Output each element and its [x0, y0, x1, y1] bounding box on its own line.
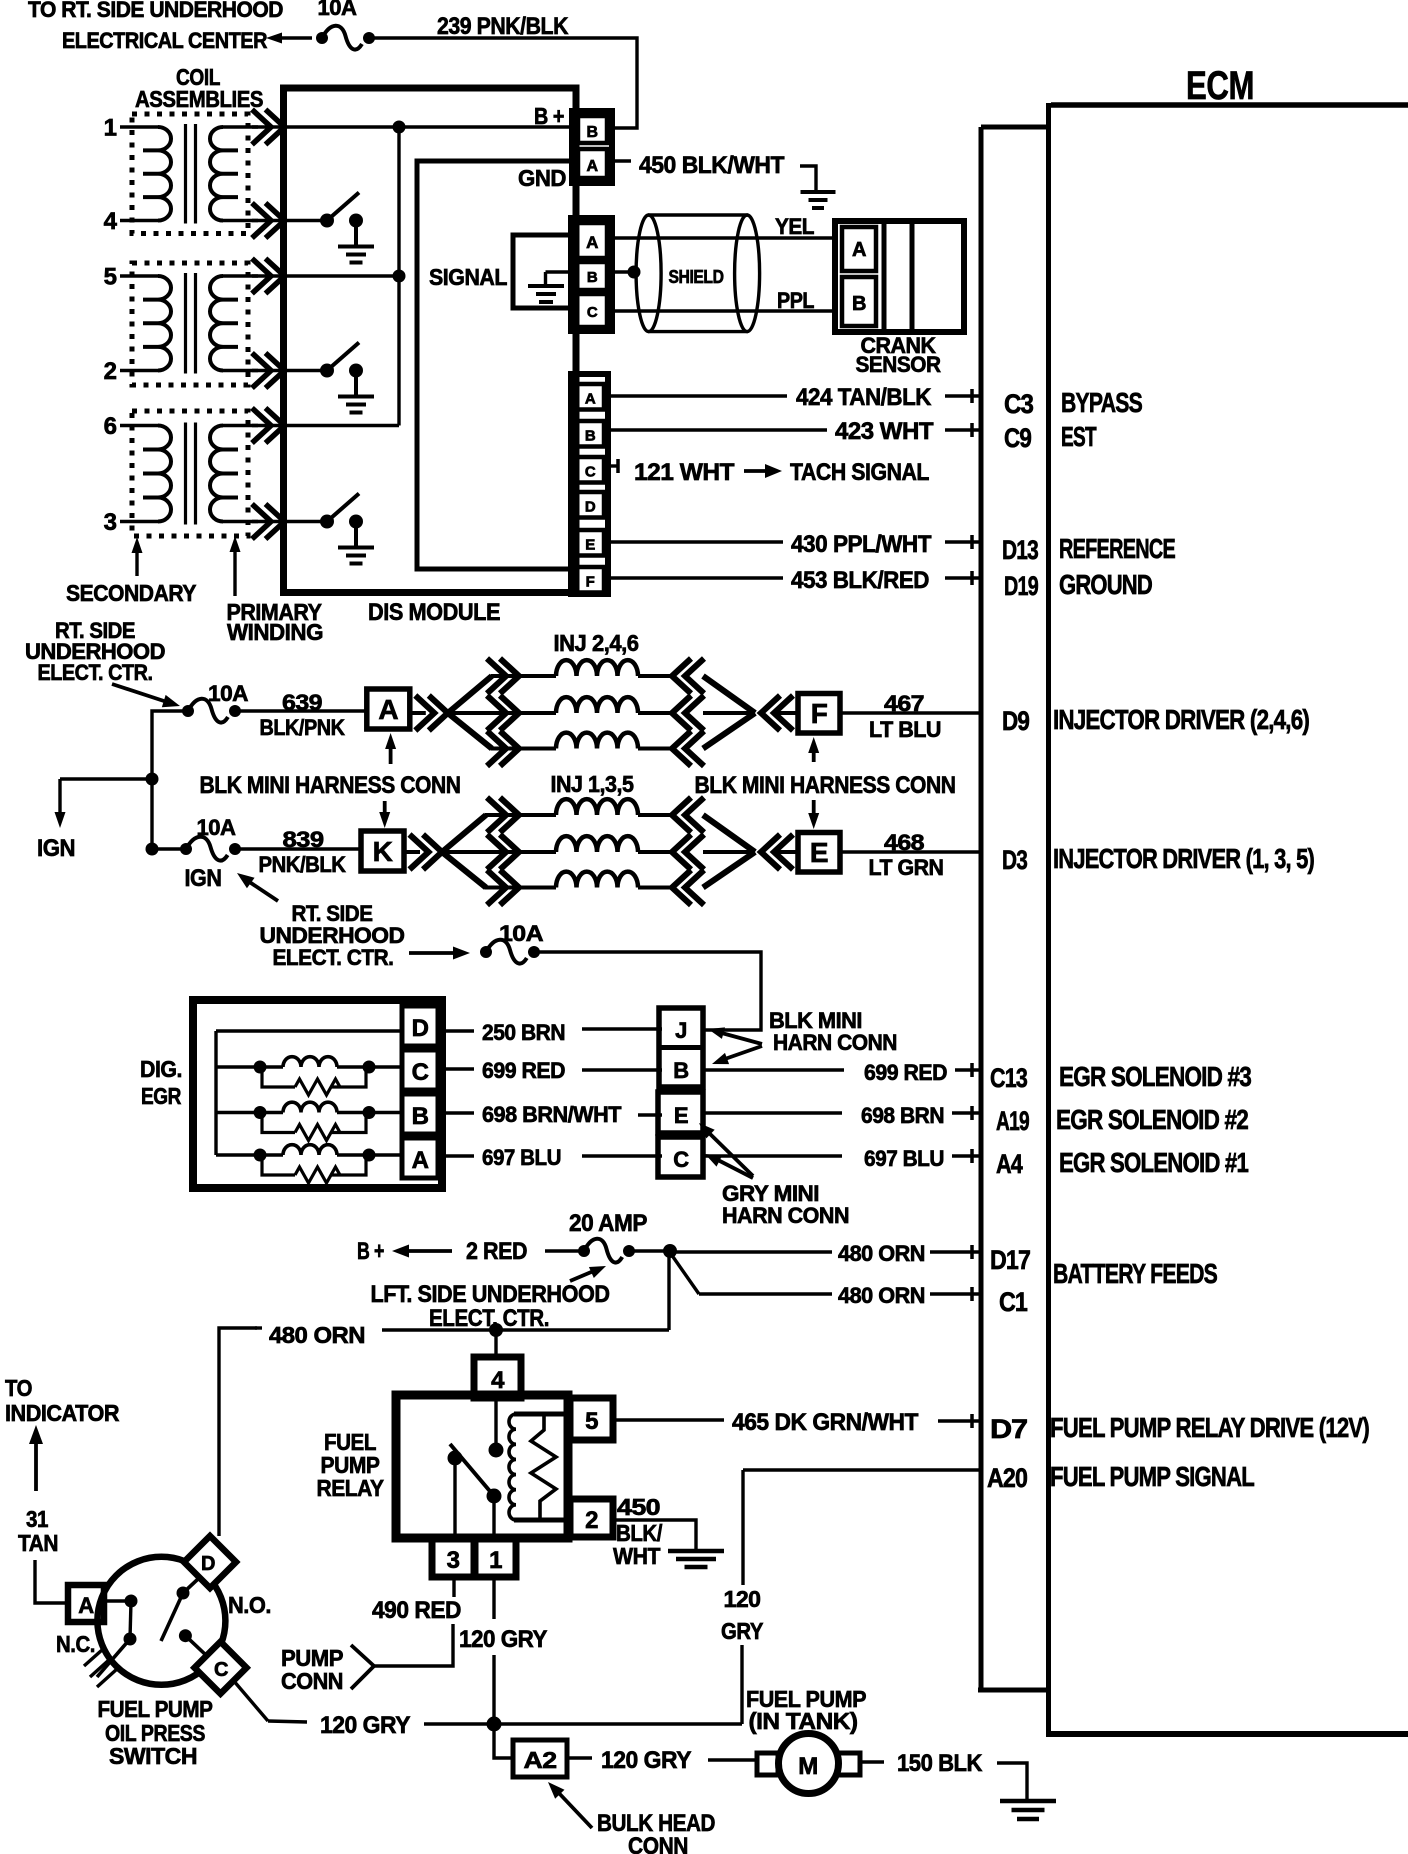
wire 697 BLU (left) [438, 1154, 662, 1157]
svg-text:TACH SIGNAL: TACH SIGNAL [790, 459, 929, 486]
branch chevrons [487, 835, 519, 870]
relay coil box [514, 1414, 566, 1520]
EGR pins D/C/B/A [402, 1006, 438, 1178]
relay coil (wavy) [509, 1414, 516, 1520]
primary winding of T3 [210, 426, 258, 522]
branch chevrons [487, 659, 519, 694]
label LFT. SIDE UNDERHOOD ELECT. CTR. with arrow [371, 1266, 610, 1332]
relay pin 3 box [432, 1538, 474, 1577]
wire 121 WHT tach stub [604, 459, 618, 473]
arrow to indicator [29, 1425, 43, 1491]
svg-text:M: M [798, 1753, 818, 1780]
svg-text:FUEL PUMP SIGNAL: FUEL PUMP SIGNAL [1050, 1461, 1255, 1492]
svg-text:C3: C3 [1004, 389, 1034, 419]
wire terminal ticks at ECM strip [970, 389, 974, 1428]
svg-text:D19: D19 [1004, 571, 1039, 601]
ground for 450 BLK/WHT [800, 166, 836, 208]
EGR solenoid #2 winding pair [216, 1102, 402, 1140]
fuse 10A (639 circuit) [182, 681, 249, 723]
svg-text:GROUND: GROUND [1059, 569, 1153, 600]
480 ORN rail wire [219, 1328, 669, 1536]
relay pin 1 box [475, 1538, 516, 1577]
svg-text:D3: D3 [1002, 845, 1028, 875]
ground for relay pin 2 [668, 1549, 724, 1554]
svg-text:FUEL PUMP: FUEL PUMP [98, 1696, 213, 1722]
svg-text:PNK/BLK: PNK/BLK [259, 852, 347, 877]
wire 239 PNK/BLK to DIS pin B [369, 38, 637, 128]
wire PPL: DIS C to crank sensor [612, 309, 836, 312]
label GRY MINI HARN CONN with arrows [699, 1123, 849, 1228]
svg-text:6: 6 [104, 413, 117, 440]
injector return chevrons [638, 798, 704, 906]
svg-text:2: 2 [585, 1507, 598, 1534]
svg-text:IGN: IGN [37, 835, 75, 862]
svg-text:ASSEMBLIES: ASSEMBLIES [135, 86, 263, 112]
svg-text:A: A [852, 239, 866, 261]
svg-text:INJ 2,4,6: INJ 2,4,6 [554, 630, 639, 656]
coil assembly T3 (cyl 6/3) dotted enclosure [132, 411, 248, 536]
svg-text:467: 467 [884, 691, 924, 716]
secondary winding of T1 [120, 127, 171, 221]
label FUEL PUMP RELAY [317, 1429, 384, 1501]
wire 467 LT BLU to ECM D9 [840, 711, 981, 714]
harness connector K [361, 831, 404, 871]
injector branch fan-out [442, 815, 556, 888]
switch pin D diamond [184, 1536, 236, 1588]
relay pin 2 box [570, 1499, 613, 1537]
label TO INDICATOR [5, 1375, 120, 1426]
svg-text:699 RED: 699 RED [864, 1060, 947, 1085]
svg-text:SWITCH: SWITCH [109, 1743, 197, 1769]
arrow to electrical center [266, 33, 312, 44]
DIS row-5 wire to bus [285, 274, 399, 277]
junction IGN branch [146, 773, 159, 786]
svg-text:K: K [373, 836, 393, 867]
svg-text:C: C [412, 1059, 429, 1086]
svg-text:423 WHT: 423 WHT [835, 418, 934, 445]
fuel pump motor [757, 1734, 860, 1794]
wire from switch C to 120 GRY rail [233, 1680, 307, 1722]
svg-text:HARN CONN: HARN CONN [773, 1030, 897, 1055]
svg-text:B +: B + [357, 1238, 384, 1265]
svg-text:D17: D17 [990, 1245, 1030, 1275]
IGN branch arrow [55, 779, 153, 828]
svg-text:2 RED: 2 RED [466, 1238, 527, 1265]
svg-text:B: B [412, 1103, 429, 1130]
svg-text:A: A [378, 694, 398, 725]
arrow to TACH SIGNAL [744, 464, 782, 478]
switch pin A box [68, 1585, 104, 1622]
svg-text:424 TAN/BLK: 424 TAN/BLK [796, 384, 932, 411]
svg-text:DIS MODULE: DIS MODULE [368, 599, 500, 626]
junction on B+ bus (row 5) [393, 270, 406, 283]
svg-text:J: J [675, 1018, 687, 1043]
ground symbol for switch row 4 [338, 247, 374, 263]
DIG EGR solenoid block [193, 1000, 442, 1188]
injector coils INJ 2,4,6 [556, 660, 638, 676]
ECM outline [1046, 103, 1408, 1734]
svg-text:4: 4 [104, 208, 118, 235]
svg-text:EST: EST [1061, 421, 1097, 452]
svg-text:121 WHT: 121 WHT [634, 459, 735, 486]
svg-text:CONN: CONN [628, 1833, 688, 1854]
svg-text:D: D [201, 1553, 215, 1575]
injector branch merge [703, 815, 798, 888]
transformer core T1 [186, 124, 196, 224]
svg-text:PPL: PPL [777, 288, 814, 313]
svg-text:EGR SOLENOID #3: EGR SOLENOID #3 [1059, 1061, 1251, 1092]
svg-text:4: 4 [491, 1367, 505, 1394]
wire battery junction down to 480 ORN rail [667, 1251, 670, 1330]
DIS output switch row 3 [285, 494, 363, 548]
svg-text:SIGNAL: SIGNAL [429, 264, 507, 290]
svg-text:639: 639 [282, 690, 322, 715]
primary winding of T2 [210, 276, 258, 371]
svg-text:239 PNK/BLK: 239 PNK/BLK [437, 13, 569, 40]
value label 31 TAN [18, 1506, 58, 1556]
svg-text:INJECTOR DRIVER (2,4,6): INJECTOR DRIVER (2,4,6) [1053, 704, 1309, 735]
svg-text:C: C [587, 304, 598, 321]
label RT. SIDE UNDERHOOD ELECT. CTR. (lower) with arrow [237, 873, 405, 970]
value label 639 BLK/PNK [260, 690, 346, 740]
wire 453 BLK/RED (pin F to ECM D19) [604, 576, 981, 579]
wire 465 DK GRN/WHT to ECM D7 [613, 1420, 981, 1421]
wire from fuse to mini conn J [534, 952, 761, 1030]
wire 480 ORN to ECM D17 [670, 1250, 981, 1253]
label SECONDARY with arrow [66, 537, 196, 606]
wire 150 BLK to ground [860, 1762, 1027, 1800]
DIS connector pins B/A (power) [572, 111, 612, 183]
svg-text:10A: 10A [318, 0, 358, 20]
label BLK MINI HARNESS CONN (right) with arrows [695, 737, 956, 829]
svg-text:20 AMP: 20 AMP [569, 1210, 647, 1237]
label DIG. EGR [140, 1056, 182, 1109]
EGR internal common bus (pin D) [216, 1031, 402, 1155]
svg-text:5: 5 [104, 264, 117, 291]
fuse 10A (EGR 250 circuit) [480, 921, 544, 964]
relay switch common wire from pin 4 [494, 1398, 497, 1450]
svg-text:1: 1 [104, 115, 117, 142]
svg-text:B: B [852, 293, 866, 315]
svg-text:D13: D13 [1002, 535, 1039, 565]
ECM connector strip [978, 127, 1048, 1690]
svg-text:A4: A4 [996, 1149, 1023, 1179]
svg-text:E: E [674, 1103, 688, 1128]
harness connector F [798, 694, 840, 734]
svg-text:D: D [412, 1015, 429, 1042]
svg-text:F: F [586, 574, 595, 591]
svg-text:C1: C1 [999, 1287, 1028, 1317]
svg-text:150 BLK: 150 BLK [897, 1750, 983, 1777]
label PRIMARY WINDING with arrow [227, 536, 324, 645]
chevrons out of K [404, 835, 442, 870]
harness connector E [798, 833, 840, 873]
svg-text:120 GRY: 120 GRY [601, 1747, 691, 1774]
wire 250 BRN [438, 1029, 662, 1031]
svg-text:BLK MINI HARNESS CONN: BLK MINI HARNESS CONN [200, 772, 461, 799]
value label 839 PNK/BLK [259, 827, 347, 877]
svg-text:ELECT. CTR.: ELECT. CTR. [273, 945, 394, 970]
junction on B+ bus (row 1) [393, 121, 406, 134]
connector chevrons into DIS (rows 1/4) [252, 110, 285, 239]
switch pin C diamond [195, 1642, 247, 1694]
svg-text:SECONDARY: SECONDARY [66, 580, 196, 606]
svg-text:10A: 10A [197, 815, 237, 840]
svg-text:A: A [412, 1147, 429, 1174]
label FUEL PUMP (IN TANK) [746, 1686, 866, 1734]
svg-text:699 RED: 699 RED [482, 1058, 565, 1083]
relay contact (from coil feed) [489, 1443, 504, 1458]
svg-text:EGR SOLENOID #2: EGR SOLENOID #2 [1056, 1104, 1248, 1135]
svg-text:ECM: ECM [1186, 64, 1254, 108]
switch internal contacts [97, 1579, 208, 1677]
wire 699 RED to ECM C13 [703, 1068, 981, 1071]
DIS internal B+ bus wire [285, 127, 573, 426]
svg-text:697 BLU: 697 BLU [482, 1145, 561, 1170]
DIS row-6 wire to bus [285, 424, 399, 427]
wire 450 BLK/WHT from pin 2 to ground [611, 1520, 696, 1551]
svg-text:10A: 10A [208, 681, 249, 706]
svg-text:480 ORN: 480 ORN [838, 1283, 925, 1308]
svg-text:REFERENCE: REFERENCE [1059, 533, 1175, 564]
svg-text:430 PPL/WHT: 430 PPL/WHT [791, 531, 932, 558]
svg-text:BATTERY FEEDS: BATTERY FEEDS [1053, 1258, 1217, 1289]
label BLK MINI HARN CONN with arrows [708, 1008, 897, 1064]
harness connector A [367, 689, 410, 729]
svg-text:ELECTRICAL CENTER: ELECTRICAL CENTER [62, 28, 268, 53]
wire 698 BRN/WHT [438, 1113, 662, 1115]
svg-text:N.C.: N.C. [56, 1631, 95, 1657]
svg-text:TO RT. SIDE UNDERHOOD: TO RT. SIDE UNDERHOOD [28, 0, 283, 22]
label BULK HEAD CONN with arrow [548, 1782, 715, 1854]
svg-text:LFT. SIDE UNDERHOOD: LFT. SIDE UNDERHOOD [371, 1281, 610, 1308]
ground symbol for switch row 2 [338, 397, 374, 413]
svg-text:YEL: YEL [775, 214, 814, 239]
svg-text:C: C [214, 1659, 228, 1681]
svg-text:839: 839 [283, 827, 324, 852]
relay switch blade [448, 1444, 495, 1496]
DIS module outline [284, 88, 577, 593]
label B+ with arrow [357, 1238, 452, 1265]
arrow from label to 10A fuse [112, 684, 180, 707]
svg-text:453 BLK/RED: 453 BLK/RED [791, 567, 929, 594]
junction at bus bottom [146, 843, 159, 856]
svg-text:GND: GND [518, 165, 566, 191]
svg-text:31: 31 [26, 1506, 49, 1532]
fuel pump relay outline [396, 1395, 568, 1538]
wire YEL: DIS A to crank sensor [612, 236, 836, 239]
svg-text:480 ORN: 480 ORN [838, 1241, 925, 1266]
svg-text:E: E [585, 537, 595, 554]
svg-text:D9: D9 [1002, 706, 1030, 736]
svg-text:F: F [811, 698, 828, 729]
relay pin 4 box [474, 1357, 521, 1398]
svg-text:3: 3 [104, 509, 117, 536]
svg-text:465 DK GRN/WHT: 465 DK GRN/WHT [732, 1409, 919, 1436]
svg-text:TAN: TAN [18, 1530, 58, 1556]
svg-text:A19: A19 [996, 1106, 1030, 1136]
signal ground symbol [528, 272, 573, 302]
svg-text:INJ 1,3,5: INJ 1,3,5 [551, 771, 635, 797]
120 GRY rail wire [424, 1722, 742, 1725]
svg-text:1: 1 [489, 1547, 502, 1574]
primary winding of T1 [210, 127, 258, 221]
svg-text:468: 468 [884, 830, 924, 855]
svg-text:CONN: CONN [281, 1668, 343, 1694]
wire 698 BRN to ECM A19 [703, 1111, 981, 1114]
injector coils INJ 1,3,5 [556, 799, 638, 815]
svg-text:B: B [586, 124, 597, 141]
svg-text:FUEL PUMP RELAY DRIVE (12V): FUEL PUMP RELAY DRIVE (12V) [1050, 1412, 1369, 1443]
ground for fuel pump [1000, 1799, 1056, 1804]
mini harness connector J/B [659, 1008, 703, 1087]
chevrons out of A [410, 696, 448, 731]
value label 468 LT GRN [869, 830, 944, 880]
svg-text:SENSOR: SENSOR [856, 352, 942, 377]
svg-text:A: A [78, 1593, 94, 1618]
arrow from ELECT CTR label to EGR fuse [409, 947, 470, 960]
svg-text:WHT: WHT [613, 1543, 660, 1569]
EGR solenoid #3 winding pair [216, 1057, 402, 1095]
relay coil resistor (zigzag) [531, 1414, 556, 1520]
bulkhead connector A2 [513, 1740, 567, 1777]
junction to relay pin 4 [489, 1323, 503, 1337]
crank sensor connector [835, 221, 964, 332]
injector return chevrons [638, 659, 704, 767]
secondary winding of T3 [120, 426, 171, 522]
value label 450 BLK/WHT (relay) [613, 1494, 663, 1569]
wire 430 PPL/WHT (pin E to ECM D13) [604, 540, 981, 543]
svg-text:450 BLK/WHT: 450 BLK/WHT [639, 152, 785, 179]
battery feed junction [663, 1244, 677, 1258]
branch chevrons [487, 696, 519, 731]
svg-text:WINDING: WINDING [227, 619, 323, 645]
svg-text:TO: TO [5, 1375, 32, 1401]
DIS internal signal box [417, 161, 573, 569]
wire 2 RED to fuse [545, 1249, 584, 1252]
label BLK MINI HARNESS CONN (left) with arrows [200, 733, 461, 828]
svg-text:D7: D7 [990, 1414, 1027, 1444]
label RT. SIDE UNDERHOOD ELECT. CTR. (upper) [25, 618, 165, 685]
svg-text:LT BLU: LT BLU [869, 717, 941, 742]
DIS crank-signal connector pins A/B/C [571, 218, 612, 331]
svg-text:B: B [673, 1058, 688, 1083]
label CRANK SENSOR [856, 333, 942, 377]
svg-text:A20: A20 [987, 1463, 1027, 1493]
transformer core T2 [186, 273, 196, 374]
mini harness connector E [658, 1092, 703, 1133]
svg-text:LT GRN: LT GRN [869, 855, 944, 880]
svg-text:ELECT. CTR.: ELECT. CTR. [38, 660, 153, 685]
svg-text:B: B [587, 269, 598, 286]
wire shield drain from DIS B [612, 266, 641, 279]
label FUEL PUMP OIL PRESS SWITCH [98, 1696, 213, 1769]
junction on 120 GRY rail [487, 1717, 502, 1732]
svg-text:IGN: IGN [185, 865, 222, 892]
label PUMP CONN [281, 1645, 343, 1694]
svg-text:250 BRN: 250 BRN [482, 1020, 565, 1045]
wire 480 ORN to ECM C1 [671, 1254, 981, 1294]
relay contact to pin 1 [487, 1489, 502, 1504]
fuse 10A (839 circuit) [180, 815, 241, 861]
svg-text:A: A [586, 233, 598, 252]
svg-text:490 RED: 490 RED [372, 1597, 461, 1624]
svg-text:C: C [673, 1147, 689, 1172]
svg-text:(IN TANK): (IN TANK) [749, 1708, 858, 1734]
svg-text:B: B [585, 428, 596, 445]
svg-text:D: D [585, 499, 596, 516]
svg-text:HARN CONN: HARN CONN [722, 1203, 849, 1228]
wire 697 BLU to ECM A4 [703, 1154, 981, 1157]
svg-text:5: 5 [585, 1408, 598, 1435]
mini harness connector C [658, 1137, 703, 1177]
N.C. ground hash [84, 1650, 117, 1687]
coil assembly T1 (cyl 1/4) dotted enclosure [132, 114, 248, 234]
svg-text:B +: B + [534, 103, 564, 129]
transformer core T3 [186, 423, 196, 525]
svg-text:SHIELD: SHIELD [669, 267, 724, 287]
wire ECM A20 to 120 GRY rail [742, 1470, 981, 1724]
svg-text:E: E [810, 837, 828, 868]
connector chevrons into DIS (rows 5/2) [252, 259, 285, 389]
svg-text:120 GRY: 120 GRY [459, 1626, 547, 1653]
svg-text:697 BLU: 697 BLU [864, 1146, 944, 1171]
ground symbol for switch row 3 [338, 548, 374, 564]
svg-text:10A: 10A [499, 921, 544, 946]
wire 699 RED (left) [438, 1069, 662, 1070]
svg-text:A: A [586, 158, 598, 175]
shielded cable (cylinder) [636, 215, 760, 332]
value label 120 GRY (A20 drop) [721, 1586, 763, 1644]
wire A2 to fuel pump [567, 1758, 757, 1760]
label: COIL ASSEMBLIES [135, 64, 263, 112]
ground sub-box inside DIS (signal ground) [513, 235, 573, 308]
svg-text:BLK MINI HARNESS CONN: BLK MINI HARNESS CONN [695, 772, 956, 799]
svg-text:C: C [585, 464, 596, 481]
svg-text:RELAY: RELAY [317, 1475, 384, 1501]
svg-text:ELECT. CTR.: ELECT. CTR. [429, 1305, 549, 1332]
injector branch merge [703, 676, 798, 749]
wire 839 PNK/BLK to conn K [235, 847, 361, 850]
svg-text:BLK/PNK: BLK/PNK [260, 715, 346, 740]
DIS output switch row 4 [285, 193, 363, 247]
svg-text:EGR: EGR [141, 1083, 182, 1109]
label: TO RT. SIDE UNDERHOOD ELECTRICAL CENTER [28, 0, 283, 53]
DIS output switch row 2 [285, 343, 363, 397]
IGN bus wire [152, 711, 188, 849]
wire to relay pin 4 [494, 1330, 497, 1358]
PUMP CONN bracket [351, 1645, 374, 1689]
svg-text:A: A [585, 391, 596, 408]
wire 120 GRY from pin 1 [492, 1577, 495, 1724]
value label 467 LT BLU [869, 691, 941, 742]
EGR solenoid #1 winding pair [216, 1145, 402, 1183]
wire 31 TAN to switch pin A [35, 1560, 68, 1603]
oil pressure switch body [97, 1557, 225, 1685]
fuse 10A (239 circuit) [316, 0, 375, 50]
wire 468 LT GRN to ECM D3 [838, 850, 981, 853]
secondary winding of T2 [120, 276, 171, 371]
wire 450 BLK/WHT from pin A [612, 159, 631, 162]
wire 639 BLK/PNK to conn A [235, 709, 367, 712]
svg-text:GRY: GRY [721, 1618, 763, 1644]
svg-text:2: 2 [104, 358, 117, 385]
svg-text:698 BRN: 698 BRN [861, 1103, 944, 1128]
svg-text:DIG.: DIG. [140, 1056, 182, 1082]
connector chevrons into DIS (rows 6/3) [252, 408, 285, 539]
wire 490 RED from pin 3 [374, 1577, 454, 1666]
svg-text:INJECTOR DRIVER (1, 3, 5): INJECTOR DRIVER (1, 3, 5) [1053, 843, 1314, 874]
